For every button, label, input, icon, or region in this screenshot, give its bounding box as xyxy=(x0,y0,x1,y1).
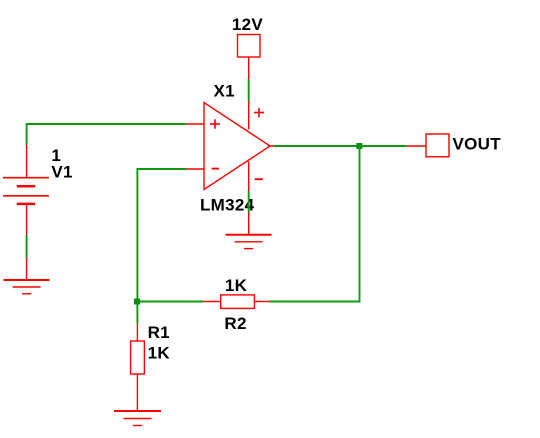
wire op-amp V- to ground xyxy=(248,191,250,212)
wire op-amp output to VOUT xyxy=(274,145,407,147)
svg-text:R2: R2 xyxy=(224,314,246,333)
battery V1 xyxy=(3,145,49,235)
ground below op-amp xyxy=(226,235,272,249)
svg-text:V1: V1 xyxy=(51,162,72,181)
svg-text:R1: R1 xyxy=(148,323,170,342)
wire inverting input to feedback node xyxy=(137,169,186,302)
op-amp non-inverting input pin xyxy=(186,123,204,125)
wire feedback node to R2 left xyxy=(137,301,203,303)
junction node on output wire xyxy=(356,143,362,149)
op-amp inverting input pin xyxy=(186,168,204,170)
terminal VOUT box xyxy=(426,134,449,157)
minus mark inverting input xyxy=(212,168,219,170)
plus mark V+ power xyxy=(254,108,264,117)
junction node feedback xyxy=(134,299,140,305)
svg-text:1K: 1K xyxy=(148,344,171,363)
resistor R1 xyxy=(131,324,145,411)
ground stub below battery xyxy=(26,258,28,280)
svg-text:X1: X1 xyxy=(214,82,235,101)
plus mark non-inverting input xyxy=(210,119,220,128)
op-amp V- pin xyxy=(248,162,250,192)
terminal VOUT pin xyxy=(407,145,427,147)
svg-text:12V: 12V xyxy=(232,15,264,34)
svg-text:1K: 1K xyxy=(225,276,248,295)
op-amp X1 body xyxy=(204,103,270,190)
ground below R1 xyxy=(114,411,161,426)
op-amp X1 pin V+ xyxy=(248,101,250,130)
minus mark V- power xyxy=(255,178,263,180)
wire battery minus to ground xyxy=(26,235,28,258)
ground below battery xyxy=(4,280,50,294)
wire battery to non-inverting input xyxy=(27,124,186,145)
op-amp output pin xyxy=(268,145,274,147)
power terminal 12V xyxy=(238,35,261,80)
svg-text:VOUT: VOUT xyxy=(453,135,502,154)
ground stub below op-amp xyxy=(248,212,250,235)
svg-text:LM324: LM324 xyxy=(200,196,255,215)
resistor R2 xyxy=(203,295,269,309)
wire output junction down to R2 xyxy=(270,146,360,302)
wire 12V to op-amp V+ xyxy=(248,79,250,101)
wire feedback node down to R1 xyxy=(136,302,138,324)
